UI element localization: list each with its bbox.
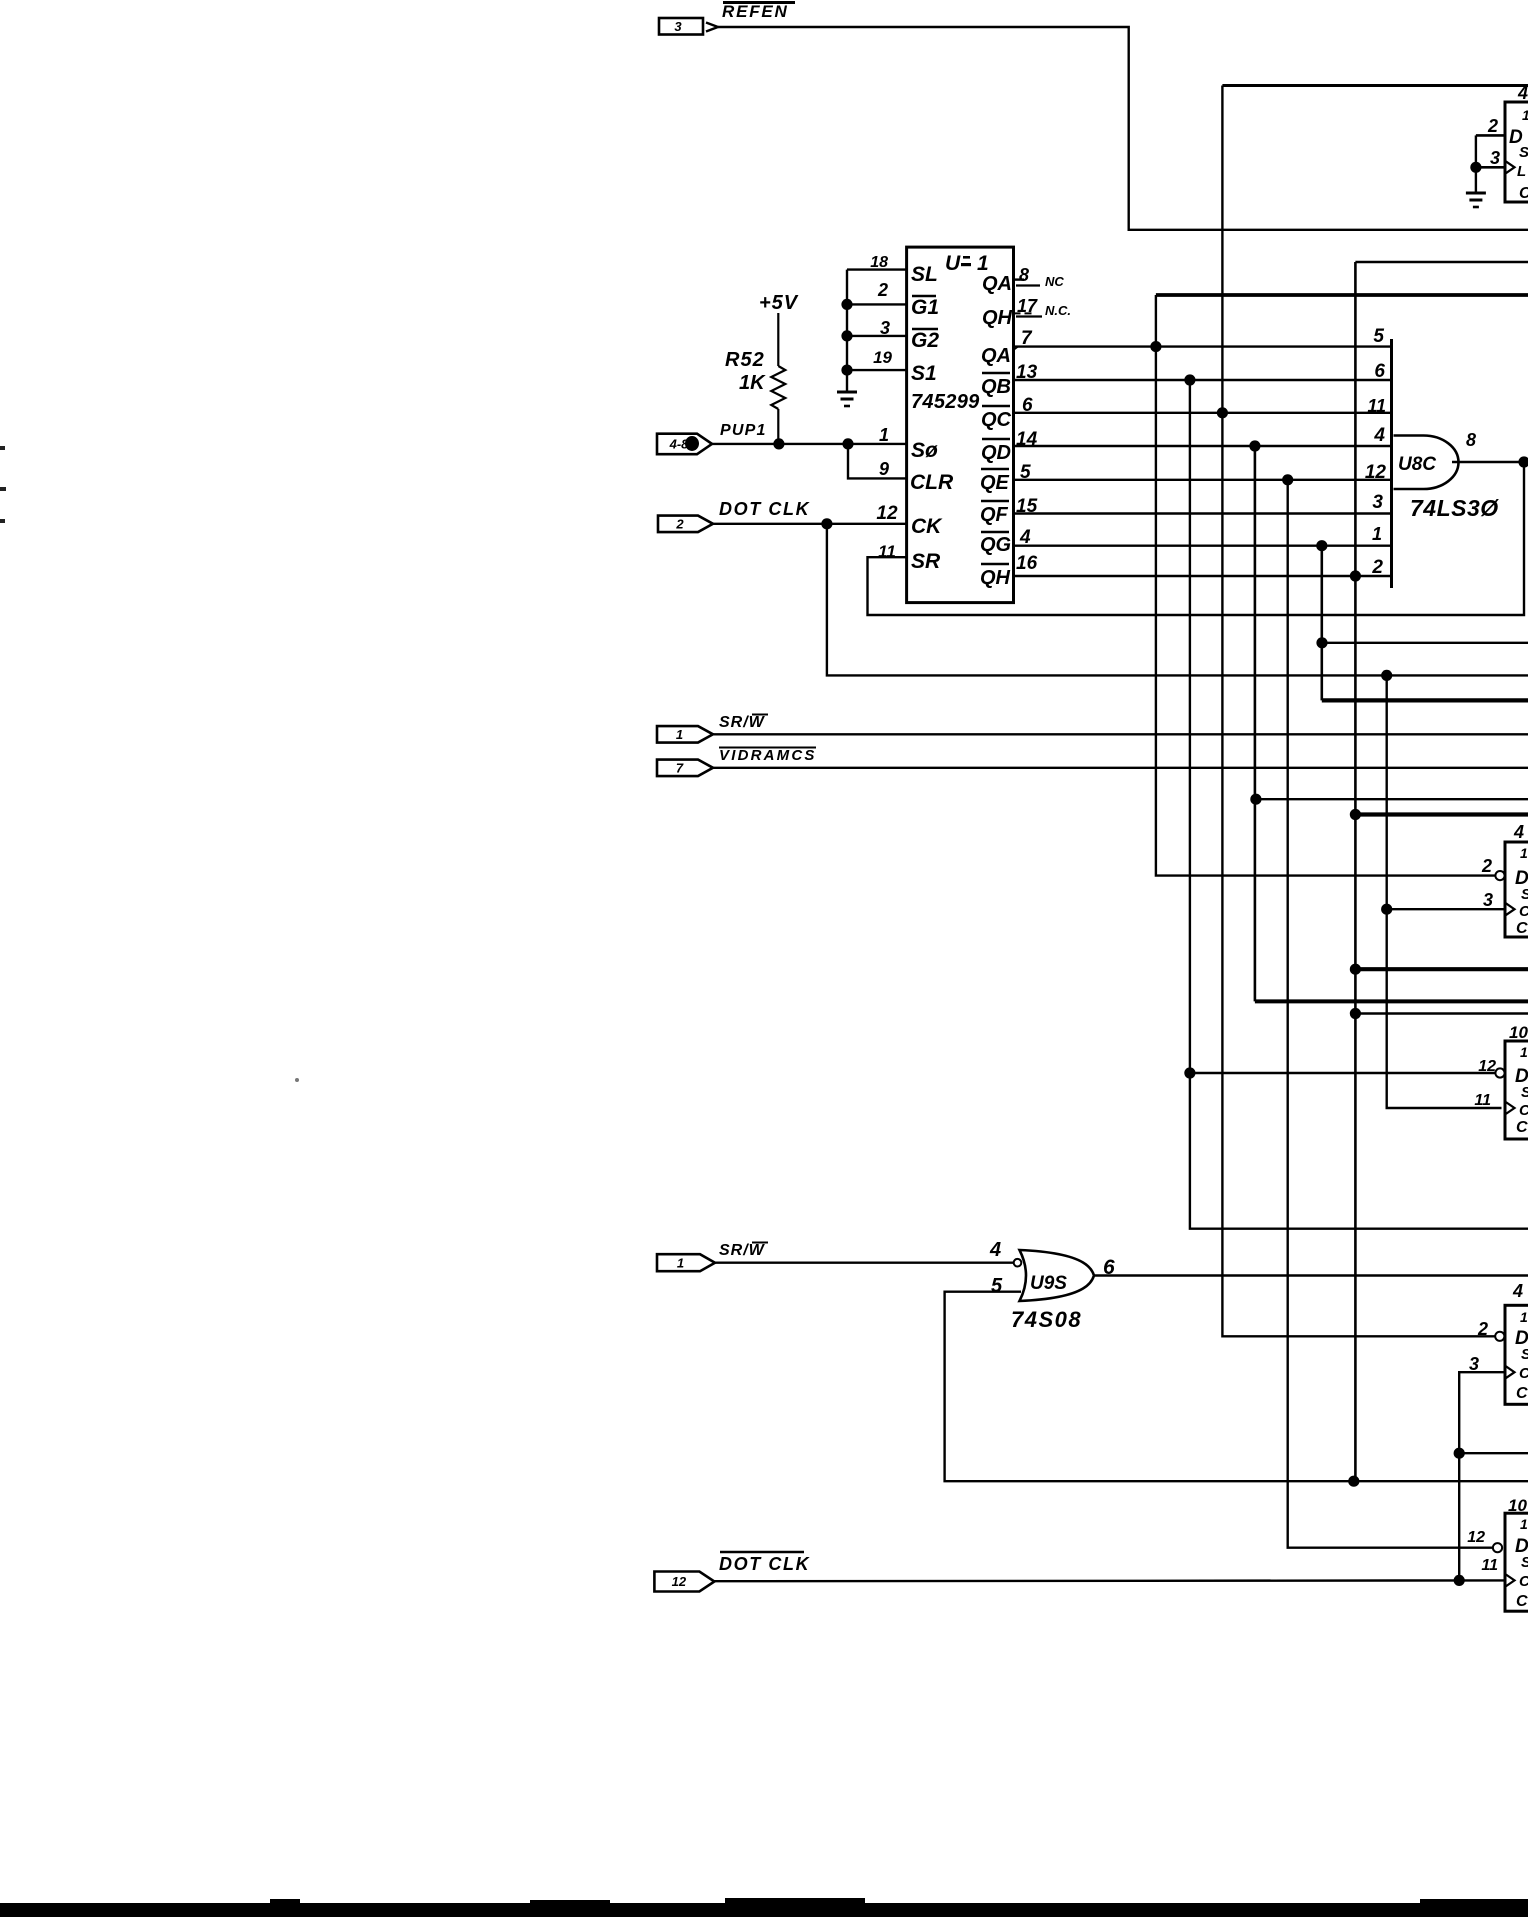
- junction dot QB tap: [1184, 374, 1195, 385]
- svg-text:PUP1: PUP1: [720, 422, 767, 439]
- svg-text:11: 11: [1367, 396, 1386, 416]
- svg-text:13: 13: [1016, 362, 1038, 383]
- svg-text:3: 3: [674, 19, 682, 34]
- svg-text:3: 3: [1483, 890, 1493, 910]
- svg-text:SL: SL: [911, 263, 938, 286]
- svg-text:1: 1: [1522, 107, 1528, 123]
- rail QH y969: [1355, 967, 1528, 971]
- junction dot QE tap: [1282, 474, 1293, 485]
- rail QH y1013: [1355, 1012, 1528, 1014]
- junction dot QA tap: [1150, 341, 1161, 352]
- junction dot S0-CLR branch: [842, 438, 853, 449]
- connector J1 SR/W lower: [657, 1254, 715, 1271]
- wire QE vertical tap: [1288, 480, 1493, 1548]
- wire QA vertical tap: [1156, 295, 1496, 876]
- svg-text:1: 1: [1372, 524, 1382, 544]
- wire QH vertical tap: [1354, 262, 1357, 1481]
- wire DOT CLK to CK pin: [713, 523, 907, 525]
- wire QD vertical tap: [1254, 446, 1257, 1001]
- wire QB pin13 net: [1014, 379, 1392, 381]
- svg-text:C: C: [1516, 920, 1528, 937]
- junction dot QB pin12: [1184, 1067, 1195, 1078]
- svg-text:8: 8: [1019, 265, 1029, 285]
- IC U-mid partial box: [1505, 842, 1528, 937]
- svg-text:14: 14: [1016, 429, 1038, 450]
- connector J2 DOT CLK: [658, 516, 713, 533]
- pin 8 QA stub NC: [1014, 278, 1025, 280]
- mid IC pin 3 wedge: [1505, 903, 1515, 916]
- pin 3 stub of top IC: [1476, 166, 1505, 169]
- connector J7 VIDRAMCS: [657, 760, 713, 777]
- svg-text:3: 3: [1372, 492, 1383, 513]
- svg-text:S1: S1: [911, 362, 937, 385]
- svg-text:12: 12: [1365, 462, 1387, 483]
- wire QB to pin12 of low IC: [1190, 1072, 1496, 1074]
- wire QA pin7 net: [1014, 345, 1392, 347]
- svg-text:4: 4: [1019, 527, 1031, 548]
- svg-text:Sø: Sø: [911, 439, 938, 462]
- rail to edge y85: [1222, 84, 1528, 87]
- wire QE pin5 net: [1014, 479, 1392, 481]
- connector J4-8 PUP1: [657, 434, 712, 455]
- svg-text:L: L: [1517, 163, 1526, 180]
- svg-text:G2: G2: [911, 329, 939, 352]
- rail y1453 from clock vertical: [1459, 1452, 1528, 1454]
- svg-text:S: S: [1521, 1084, 1528, 1101]
- low IC pin 11 wedge: [1505, 1102, 1515, 1115]
- svg-text:DOT CLK: DOT CLK: [719, 1554, 811, 1574]
- svg-text:2: 2: [1477, 1319, 1488, 1339]
- wire U8C output to SR loop: [1471, 461, 1524, 463]
- svg-text:1: 1: [1520, 845, 1528, 861]
- svg-text:11: 11: [1474, 1092, 1491, 1109]
- svg-text:1: 1: [977, 252, 989, 275]
- bot2 IC pin 12 bubble: [1493, 1543, 1502, 1552]
- svg-text:CLR: CLR: [910, 471, 954, 494]
- svg-text:N.C.: N.C.: [1045, 303, 1071, 318]
- gate U8C 74LS30 body: [1394, 436, 1459, 490]
- wire VIDRAMCS rail: [713, 767, 1528, 769]
- svg-text:U8C: U8C: [1398, 454, 1436, 475]
- connector J1 SR/W: [657, 726, 713, 743]
- bot1 IC pin 2 bubble: [1495, 1332, 1504, 1341]
- svg-text:REFEN: REFEN: [722, 2, 789, 21]
- svg-text:18: 18: [870, 254, 888, 271]
- wire REFEN to right rail: [718, 27, 1528, 230]
- junction dot clock rail 1453: [1454, 1448, 1465, 1459]
- wire QD pin14 net: [1014, 445, 1392, 447]
- junction dot QC tap: [1217, 407, 1228, 418]
- svg-text:QA: QA: [982, 273, 1012, 295]
- connector J-3 REFEN: [659, 18, 703, 35]
- svg-text:R52: R52: [725, 349, 765, 371]
- svg-text:3: 3: [1490, 148, 1500, 168]
- svg-text:74LS3Ø: 74LS3Ø: [1410, 495, 1499, 521]
- svg-text:U: U: [945, 252, 961, 275]
- junction dot at top IC pin3: [1470, 162, 1481, 173]
- svg-text:QC: QC: [981, 409, 1012, 431]
- wire QG vertical tap: [1321, 546, 1324, 701]
- IC U-low partial box: [1505, 1041, 1528, 1139]
- svg-text:5: 5: [1020, 462, 1031, 483]
- wire SR/W to U9S pin4: [714, 1261, 1014, 1263]
- pin 2 G1 stub: [847, 303, 907, 305]
- svg-text:9: 9: [879, 459, 889, 479]
- wire to CLR pin: [848, 444, 907, 479]
- junction dot S1: [841, 365, 852, 376]
- op U8C input bus: [1390, 339, 1393, 588]
- junction dot DOT CLK branch: [821, 518, 832, 529]
- svg-text:7: 7: [676, 760, 684, 775]
- svg-text:CK: CK: [911, 515, 943, 538]
- wire SR/W rail: [713, 733, 1528, 735]
- rail to edge y262: [1355, 261, 1528, 264]
- svg-text:1: 1: [1520, 1309, 1528, 1325]
- svg-text:16: 16: [1016, 553, 1038, 574]
- svg-text:5: 5: [991, 1275, 1003, 1297]
- resistor R52 1K: [777, 313, 779, 366]
- svg-text:10: 10: [1509, 1023, 1528, 1042]
- pin 17 QH stub NC: [1014, 312, 1032, 314]
- bot1 IC pin 3 wedge: [1505, 1366, 1515, 1379]
- svg-text:2: 2: [1371, 557, 1383, 578]
- svg-text:QH: QH: [982, 307, 1013, 329]
- U8C output pin 8: [1452, 461, 1471, 463]
- svg-text:C: C: [1519, 903, 1528, 920]
- svg-text:G1: G1: [911, 296, 939, 319]
- svg-text:QE: QE: [980, 472, 1010, 494]
- U9S pin4 bubble: [1014, 1259, 1022, 1267]
- rail to edge y295: [1156, 293, 1528, 297]
- svg-text:74S08: 74S08: [1011, 1307, 1082, 1332]
- svg-text:6: 6: [1022, 395, 1033, 416]
- svg-text:2: 2: [675, 516, 684, 531]
- svg-text:SR/W: SR/W: [719, 714, 766, 731]
- svg-text:1: 1: [677, 1255, 684, 1270]
- junction dot G2: [841, 330, 852, 341]
- svg-text:C: C: [1516, 1593, 1528, 1610]
- edge tick marks: [0, 446, 5, 450]
- junction dot QD tap: [1249, 440, 1260, 451]
- svg-text:4: 4: [989, 1239, 1001, 1261]
- pin 19 S1 stub: [847, 369, 907, 371]
- wire U9S output 6 rail: [1094, 1274, 1528, 1276]
- svg-text:S: S: [1519, 144, 1528, 161]
- junction dot QG rail: [1316, 637, 1327, 648]
- pin 3 G2 stub: [847, 335, 907, 337]
- svg-text:C: C: [1519, 185, 1528, 202]
- svg-text:U9S: U9S: [1030, 1273, 1067, 1294]
- wire DOT CLK vertical branch: [1387, 675, 1502, 1108]
- junction dot U8C output corner: [1518, 456, 1528, 467]
- svg-text:QG: QG: [980, 534, 1011, 556]
- svg-text:S: S: [1521, 886, 1528, 903]
- junction dot clock branch bottom: [1454, 1575, 1465, 1586]
- wire pin2 to pin3 junction: [1475, 135, 1477, 167]
- svg-text:1K: 1K: [739, 372, 766, 394]
- svg-text:6: 6: [1374, 361, 1385, 382]
- IC U-top partial box: [1505, 102, 1528, 202]
- ground under S1 bus: [837, 391, 857, 394]
- svg-text:C: C: [1516, 1385, 1528, 1402]
- svg-text:4: 4: [1512, 1281, 1523, 1301]
- svg-text:11: 11: [1481, 1557, 1498, 1574]
- IC U-bot1 partial box: [1505, 1305, 1528, 1404]
- svg-text:3: 3: [880, 318, 890, 338]
- wire U9S pin5 loop: [945, 1292, 1528, 1482]
- svg-text:S: S: [1521, 1346, 1528, 1363]
- svg-text:QB: QB: [981, 376, 1011, 398]
- svg-text:QA´: QA´: [981, 345, 1019, 367]
- wire clock up to bot1 pin3: [1459, 1372, 1505, 1580]
- svg-text:+5V: +5V: [759, 292, 799, 314]
- svg-text:7: 7: [1021, 328, 1033, 349]
- rail QH y814: [1355, 812, 1528, 816]
- svg-text:12: 12: [1467, 1529, 1485, 1546]
- junction dot DOT CLK to U clock pin3: [1381, 904, 1392, 915]
- svg-text:2: 2: [1481, 856, 1492, 876]
- svg-text:1: 1: [1520, 1044, 1528, 1060]
- wire QD rail y1001: [1255, 999, 1528, 1003]
- svg-text:NC: NC: [1045, 274, 1064, 289]
- junction dot G1: [841, 299, 852, 310]
- bottom scan bar: [0, 1903, 1528, 1917]
- svg-text:17: 17: [1017, 296, 1038, 316]
- rail QD y799: [1256, 798, 1528, 800]
- wire PUP1 to S0: [712, 443, 907, 445]
- svg-text:10: 10: [1508, 1496, 1527, 1515]
- svg-text:15: 15: [1016, 496, 1038, 517]
- IC U-bot2 partial box: [1505, 1513, 1528, 1611]
- svg-text:5: 5: [1373, 326, 1384, 347]
- svg-text:QH: QH: [980, 567, 1011, 589]
- pin 18 SL stub: [847, 268, 907, 270]
- svg-text:1: 1: [676, 727, 683, 742]
- wire QG rail y642: [1322, 642, 1528, 644]
- svg-text:S: S: [1521, 1554, 1528, 1571]
- svg-text:C: C: [1516, 1119, 1528, 1136]
- svg-text:2: 2: [877, 280, 888, 300]
- svg-text:745299: 745299: [911, 391, 980, 413]
- wire QC pin6 net: [1014, 412, 1392, 414]
- junction dot QH tap: [1350, 570, 1361, 581]
- svg-text:1: 1: [879, 425, 889, 445]
- svg-text:QD: QD: [981, 442, 1011, 464]
- wire QC vertical tap: [1222, 86, 1495, 1337]
- svg-text:19: 19: [873, 348, 892, 367]
- mid IC pin 2 bubble: [1495, 871, 1504, 880]
- junction dot QH end on pin5 line: [1348, 1476, 1359, 1487]
- pin 2 stub of top IC: [1476, 134, 1505, 137]
- svg-text:1: 1: [1520, 1516, 1528, 1532]
- wire QB vertical tap: [1190, 380, 1528, 1229]
- wire QG pin4 net: [1014, 545, 1392, 547]
- svg-text:VIDRAMCS: VIDRAMCS: [719, 747, 817, 764]
- svg-text:4: 4: [1373, 425, 1385, 446]
- ground at top IC: [1475, 167, 1477, 192]
- svg-text:4: 4: [1513, 822, 1524, 842]
- svg-text:C: C: [1519, 1102, 1528, 1119]
- wire DOT CLK down and right rail: [827, 524, 1528, 676]
- svg-text:SR/W: SR/W: [719, 1242, 766, 1259]
- svg-text:DOT CLK: DOT CLK: [719, 499, 811, 519]
- connector J12 DOT CLK: [654, 1572, 714, 1592]
- svg-text:C: C: [1519, 1365, 1528, 1382]
- svg-text:2: 2: [1487, 116, 1498, 136]
- junction dot QG tap: [1316, 540, 1327, 551]
- svg-text:12: 12: [672, 1574, 687, 1589]
- wire clock to pin3 of mid IC: [1387, 908, 1505, 910]
- IC U41 74S299 body: [907, 247, 1014, 602]
- junction dot DOT CLK branch: [1381, 670, 1392, 681]
- wire QG rail y700: [1322, 698, 1528, 702]
- wire QF pin15 net: [1014, 512, 1392, 514]
- svg-text:C: C: [1519, 1573, 1528, 1590]
- wire SL bus vertical: [846, 270, 848, 391]
- low IC pin 12 bubble: [1495, 1068, 1504, 1077]
- bot2 IC pin 11 wedge: [1505, 1574, 1515, 1587]
- svg-text:QF: QF: [980, 504, 1009, 526]
- junction dot resistor-PUP1: [773, 438, 784, 449]
- wire DOT CLK bottom to bot2 pin11: [714, 1579, 1505, 1582]
- wire QH pin16 net: [1014, 575, 1392, 577]
- gate U9S 74S08 body: [1020, 1250, 1095, 1301]
- svg-text:SR: SR: [911, 550, 941, 573]
- wire SR loop from U8C feedback: [868, 462, 1525, 615]
- svg-text:12: 12: [876, 503, 898, 524]
- svg-text:8: 8: [1466, 430, 1476, 450]
